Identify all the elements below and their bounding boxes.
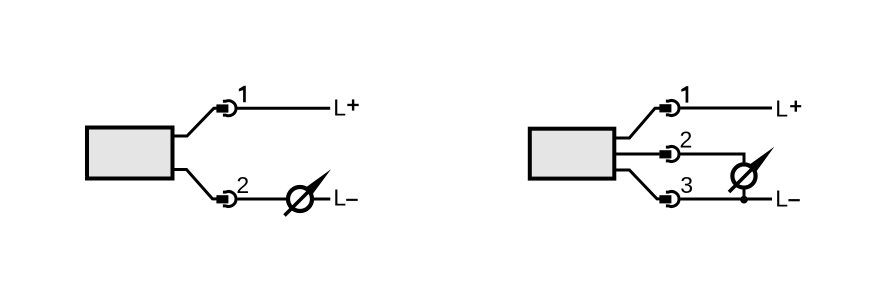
net label L- (left) [333, 185, 357, 211]
connector pin 1 plug (left) [216, 104, 228, 112]
connector pin 3 socket (right) [666, 192, 679, 207]
junction node on L- line (right) [740, 196, 748, 204]
meter circle (right analog output) [732, 164, 755, 187]
connector pin 1 socket (left) [223, 101, 236, 116]
svg-text:L: L [333, 185, 346, 211]
svg-text:2: 2 [236, 172, 249, 198]
svg-text:2: 2 [680, 126, 693, 152]
svg-text:L: L [775, 185, 788, 211]
meter circle (left analog output) [288, 187, 312, 211]
meter needle arrowhead (left) [306, 169, 331, 194]
meter needle shaft (left) [285, 189, 312, 216]
core label 1 (left) [239, 86, 246, 103]
wire: right device to pin 2 connector [616, 153, 659, 156]
wire: right device to pin 3 connector [616, 170, 660, 199]
connector pin 1 plug (right) [659, 104, 671, 112]
connector pin 1 socket (right) [666, 100, 679, 115]
wire: core 2 to meter (left) [237, 198, 287, 201]
svg-text:L: L [333, 95, 346, 121]
svg-text:3: 3 [680, 172, 693, 198]
sensor body (right device) [530, 129, 615, 179]
net label L+ (right) [775, 95, 801, 121]
wire: meter to L- (left) [314, 198, 330, 201]
wire: core 2 to meter branch corner (right) [680, 154, 744, 199]
meter needle shaft (right) [729, 166, 755, 192]
connector pin 2 socket (left) [223, 192, 236, 207]
meter needle arrowhead (right) [750, 147, 775, 172]
net label L+ (left) [333, 95, 358, 121]
wire: right device to pin 1 connector [616, 108, 660, 138]
connector pin 2 socket (right) [666, 146, 679, 161]
wire: left device to pin 1 connector [174, 108, 217, 136]
sensor body (left device) [87, 128, 173, 179]
wire: core 1 to L+ (left) [237, 107, 330, 110]
wire: core 1 to L+ (right) [680, 107, 772, 110]
connector pin 2 plug (right) [659, 150, 671, 158]
connector pin 2 plug (left) [216, 195, 228, 203]
wire: left device to pin 2 connector [174, 170, 217, 199]
svg-text:L: L [775, 95, 788, 121]
wire: core 3 to L- (right) [680, 198, 772, 201]
net label L- (right) [775, 185, 800, 211]
core label 1 (right) [681, 86, 688, 103]
connector pin 3 plug (right) [659, 195, 671, 203]
